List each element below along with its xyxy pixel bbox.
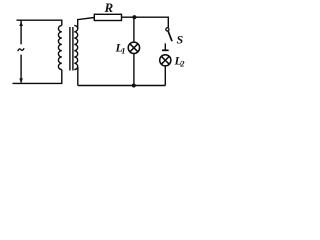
svg-text:S: S [177,33,184,47]
svg-text:2: 2 [179,59,185,69]
svg-text:1: 1 [121,46,125,56]
svg-text:R: R [104,0,114,15]
